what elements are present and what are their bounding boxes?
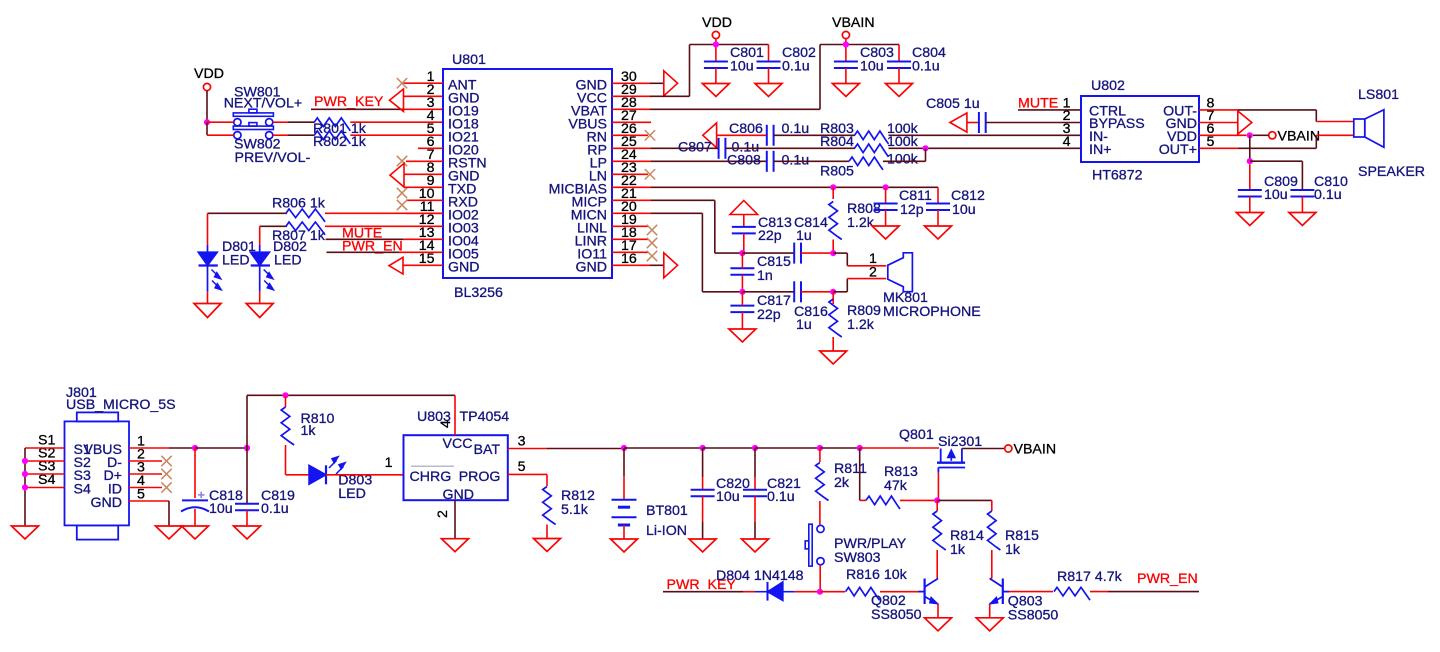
- svg-text:HT6872: HT6872: [1092, 168, 1143, 184]
- label C803: [860, 45, 894, 61]
- ground (C821): [742, 539, 769, 552]
- svg-text:1k: 1k: [950, 542, 966, 558]
- pin number 4: [427, 108, 435, 124]
- label BT801: [646, 503, 688, 519]
- label 10u (C803): [860, 59, 884, 75]
- ground (C820): [689, 539, 716, 552]
- label 22p (C817): [757, 307, 781, 323]
- label Si2301: [938, 434, 982, 450]
- junction SW803/PWR_KEY: [817, 589, 823, 595]
- pin number 1 (MK801): [869, 251, 877, 267]
- pin name OUT+ (U802 pin 5): [1159, 142, 1197, 158]
- wire VBUS pin 1: [129, 447, 169, 449]
- label 0.1u (C806): [782, 121, 810, 137]
- wire D801 net to R806: [208, 212, 288, 214]
- wire VBAIN rail: [820, 44, 899, 46]
- wire to pin 8: [404, 173, 443, 175]
- port arrow GND pin 30: [664, 71, 678, 96]
- wire to mic jog: [833, 252, 847, 254]
- pin name IO18 (pin 4): [448, 117, 479, 133]
- label C811: [899, 188, 932, 204]
- net label MUTE (U801): [342, 225, 382, 241]
- svg-text:TP4054: TP4054: [460, 409, 510, 425]
- wire: [399, 251, 443, 253]
- ground (C809): [1236, 213, 1263, 226]
- svg-text:3: 3: [518, 434, 526, 450]
- wire to D801: [207, 213, 209, 245]
- wire to MK801 pin 1: [847, 265, 886, 267]
- label U801: [452, 52, 486, 68]
- pin number 12: [419, 212, 435, 228]
- label 0.1u (C808): [782, 152, 810, 168]
- junction MICBIAS/R808: [830, 184, 836, 190]
- pin name IO20 (pin 6): [448, 143, 479, 159]
- wire C815 to junction: [741, 275, 743, 292]
- pin name IO04 (pin 13): [448, 234, 479, 250]
- svg-text:C808: C808: [727, 152, 761, 168]
- svg-text:0.1u: 0.1u: [782, 152, 810, 168]
- wire C818 to ground: [194, 509, 196, 526]
- wire VDD U802 pin 6: [1199, 134, 1247, 136]
- junction VDD/SW801: [204, 119, 210, 125]
- wire down to SW802: [206, 122, 208, 135]
- label C815: [757, 254, 791, 270]
- wire junction to C815: [741, 253, 743, 268]
- svg-text:IN+: IN+: [1089, 142, 1111, 158]
- pin name LN (pin 23): [589, 169, 607, 185]
- wire junction to C817: [741, 292, 743, 306]
- diode D804 1N4148: [755, 582, 794, 601]
- svg-text:Q801: Q801: [899, 427, 934, 443]
- pin number 2 (U803): [435, 510, 451, 518]
- net label PWR_EN (U801): [342, 239, 403, 255]
- svg-text:VBAIN: VBAIN: [832, 15, 875, 31]
- pin number 6 (U802): [1207, 121, 1215, 137]
- wire Q801 drain to VBAIN: [962, 448, 1005, 450]
- pin number 5: [427, 121, 435, 137]
- wire MICP row: [715, 252, 743, 254]
- label U803: [417, 409, 451, 425]
- no-connect ID (J801 pin 4): [129, 482, 172, 492]
- label 0.1u (C807): [732, 140, 760, 156]
- pin name MICBIAS (pin 22): [549, 182, 607, 198]
- svg-text:10u: 10u: [952, 202, 976, 218]
- label SW801: [234, 85, 281, 101]
- label 1k (R814): [950, 542, 966, 558]
- wire PWR_EN to pin 14: [327, 251, 400, 253]
- svg-text:PROG: PROG: [459, 469, 501, 485]
- transistor Q802 SS8050: [918, 579, 938, 605]
- label R804: [820, 134, 854, 150]
- label 2k (R811): [834, 475, 850, 491]
- wire D801 to ground: [207, 292, 209, 304]
- wire down to C810: [1301, 161, 1303, 190]
- wire rail to C820: [624, 447, 703, 449]
- pin name LINL (pin 19): [577, 221, 607, 237]
- label 1.2k (R808): [847, 215, 875, 231]
- label R816 10k: [846, 567, 908, 583]
- svg-text:NEXT/VOL+: NEXT/VOL+: [224, 96, 302, 112]
- svg-text:22p: 22p: [757, 307, 781, 323]
- power port VBAIN (bottom): [1005, 442, 1056, 458]
- wire R806 to pin 11: [325, 212, 443, 214]
- wire PROG pin 5: [508, 473, 547, 475]
- wire C812 to ground: [937, 210, 939, 226]
- wire PWR_KEY: [311, 108, 404, 110]
- wire C813 to junction: [743, 233, 745, 253]
- pin name VBUS (J801): [83, 442, 122, 458]
- ground (C802): [755, 84, 782, 97]
- pin name RSTN (pin 7): [448, 156, 487, 172]
- label S1 (external): [38, 433, 55, 449]
- junction S3: [22, 471, 28, 477]
- wire SW802 to R802: [273, 134, 288, 136]
- svg-text:1.2k: 1.2k: [847, 317, 875, 333]
- wire rail to R813: [820, 447, 860, 449]
- svg-text:5: 5: [137, 487, 145, 503]
- label R815: [1005, 528, 1039, 544]
- wire Q801 gate down: [937, 473, 939, 501]
- wire VDD junction to SW801: [207, 121, 234, 123]
- label U802: [1091, 78, 1125, 94]
- junction VBAIN rail: [843, 41, 849, 47]
- wire rail to R811: [755, 447, 820, 449]
- wire up to IN+ net: [925, 148, 927, 161]
- svg-text:47k: 47k: [884, 478, 908, 494]
- port arrow GND (U802 pin 7): [1238, 111, 1252, 134]
- wire MUTE to pin 13: [326, 238, 404, 240]
- junction S2: [22, 458, 28, 464]
- wire pin 24 LP: [612, 160, 651, 162]
- pin name GND (J801): [90, 495, 122, 511]
- ground (C803): [832, 84, 859, 97]
- capacitor C818 (polarized): [181, 492, 209, 512]
- wire jog down: [846, 253, 848, 266]
- wire to C818: [194, 448, 196, 498]
- label C821: [767, 476, 801, 492]
- pin number 22: [621, 173, 637, 189]
- capacitor C815: [730, 268, 754, 275]
- label 10u (C809): [1264, 187, 1288, 203]
- label BL3256: [454, 285, 503, 301]
- capacitor C805: [979, 112, 986, 133]
- capacitor C804: [887, 62, 911, 69]
- svg-text:BL3256: BL3256: [454, 285, 503, 301]
- ground (Q803): [976, 618, 1003, 631]
- op-amp U802 HT6872 body: [1081, 96, 1199, 162]
- pin number 1 (U803): [385, 455, 393, 471]
- wire D803 to U803 CHRG: [326, 474, 404, 476]
- wire to C809: [1249, 164, 1251, 190]
- pin number 10: [419, 186, 435, 202]
- pin name RXD (pin 10): [448, 195, 478, 211]
- wire RP to C807: [651, 147, 719, 149]
- wire rail junction down to R813: [859, 448, 861, 500]
- op-amp U803 TP4054 body: [404, 435, 508, 500]
- LED D802: [250, 245, 274, 292]
- wire down to R812: [546, 474, 548, 486]
- power port VDD (rail): [702, 15, 732, 39]
- label 0.1u (C804): [912, 59, 940, 75]
- label 1u (C816): [796, 317, 812, 333]
- pin name LINR (pin 18): [575, 234, 607, 250]
- wire R802 to U801 pin 5: [350, 134, 443, 136]
- wire junction to R809: [832, 292, 834, 304]
- wire C821 down: [754, 496, 756, 522]
- label R806 1k: [272, 196, 326, 212]
- wire shield bus: [24, 448, 26, 526]
- junction VBAIN/VDD (U802): [1247, 132, 1253, 138]
- capacitor C801: [704, 62, 728, 69]
- pin name CHRG (U803): [410, 466, 455, 485]
- resistor R806: [286, 209, 325, 222]
- wire S3 stub: [25, 473, 65, 475]
- ground (J801 GND): [156, 526, 183, 539]
- resistor R807: [286, 222, 325, 235]
- label PWR/PLAY: [834, 536, 907, 552]
- svg-text:1: 1: [385, 455, 393, 471]
- svg-text:16: 16: [621, 251, 637, 267]
- net label PWR_KEY (bottom): [667, 577, 737, 593]
- pin name CTRL (U802 pin 1): [1089, 104, 1126, 120]
- capacitor C813: [732, 227, 756, 234]
- no-connect pin 1: [397, 78, 443, 88]
- wire port to C806: [717, 134, 767, 136]
- pin name MICN (pin 20): [571, 208, 607, 224]
- resistor R810: [281, 407, 294, 445]
- pin number 1 (U802): [1063, 95, 1071, 111]
- label C819: [261, 488, 295, 504]
- wire U802 pin 7 to port: [1199, 122, 1238, 124]
- port arrow IN- row: [703, 123, 717, 148]
- capacitor C806: [767, 125, 774, 146]
- port arrow PWR_KEY: [390, 89, 404, 111]
- wire to pin 9: [404, 186, 443, 188]
- wire pin 16 red: [612, 264, 650, 266]
- wire MICBIAS rail: [651, 186, 938, 188]
- svg-text:USB_MICRO_5S: USB_MICRO_5S: [66, 397, 176, 413]
- ground (C818): [182, 526, 209, 539]
- wire rail to C802: [768, 45, 770, 62]
- label USB_MICRO_5S: [66, 397, 176, 413]
- wire battery to ground: [623, 525, 625, 539]
- wire BAT rail: [547, 448, 624, 450]
- svg-text:R817 4.7k: R817 4.7k: [1057, 569, 1123, 585]
- wire R814 to Q802 collector: [936, 550, 938, 579]
- label MICROPHONE: [883, 304, 981, 320]
- pin name OUT- (U802 pin 8): [1163, 104, 1197, 120]
- svg-text:VDD: VDD: [702, 15, 732, 31]
- svg-text:1u: 1u: [796, 228, 812, 244]
- port arrow RSTN/GND pins 8-9: [390, 163, 404, 187]
- wire to R808: [832, 187, 834, 199]
- wire branch to R815: [991, 500, 993, 511]
- label SPEAKER: [1358, 164, 1425, 180]
- pin name VCC (U803): [443, 436, 473, 452]
- ground (C801): [702, 84, 729, 97]
- pin name S3 (J801): [74, 468, 91, 484]
- svg-text:0.1u: 0.1u: [261, 501, 289, 517]
- wire stub pin 27 VBUS: [612, 121, 651, 123]
- port arrow GND pin 15: [389, 257, 403, 274]
- capacitor C810: [1290, 190, 1314, 197]
- resistor R805: [849, 157, 883, 170]
- pin number 15: [419, 251, 435, 267]
- wire SW803 to PWR_KEY net: [819, 565, 821, 592]
- wire VBAT right: [650, 108, 820, 110]
- wire MICN down: [701, 213, 703, 291]
- pin name GND (pin 15): [448, 260, 480, 276]
- pin name IO03 (pin 12): [448, 221, 479, 237]
- capacitor C814: [794, 243, 801, 264]
- label TP4054: [460, 409, 510, 425]
- resistor R815: [988, 511, 1001, 550]
- svg-text:LED: LED: [222, 253, 250, 269]
- no-connect pin 23: [612, 169, 655, 179]
- svg-text:0.1u: 0.1u: [1314, 187, 1342, 203]
- pin name VCC (pin 29): [577, 91, 607, 107]
- LED D801: [198, 245, 222, 292]
- junction C815/C817: [739, 289, 745, 295]
- label S2 (external): [38, 446, 55, 462]
- label C802: [782, 45, 816, 61]
- label 22p (C813): [758, 228, 782, 244]
- wire pin 30 to port: [650, 82, 664, 84]
- wire MICP right: [651, 199, 715, 201]
- svg-text:1u: 1u: [796, 317, 812, 333]
- label C813: [758, 215, 792, 231]
- wire LP to C808: [651, 160, 767, 162]
- pin number 2 (J801): [137, 447, 145, 463]
- ground (D802): [246, 304, 273, 318]
- label LED (D801): [222, 253, 250, 269]
- svg-text:0.1u: 0.1u: [767, 489, 795, 505]
- pin number 23: [621, 160, 637, 176]
- label 10u (C820): [716, 489, 740, 505]
- label Q803: [1008, 594, 1043, 610]
- label 5.1k (R812): [561, 502, 589, 518]
- wire BAT pin 3: [508, 448, 547, 450]
- capacitor C802: [757, 62, 781, 69]
- wire pin 25 RP: [612, 147, 651, 149]
- svg-text:10u: 10u: [730, 59, 754, 75]
- label R813: [884, 464, 918, 480]
- wire R812 to ground: [546, 525, 548, 539]
- wire D804 to junction: [794, 591, 820, 593]
- svg-text:SW803: SW803: [834, 550, 881, 566]
- pin number 18: [621, 225, 637, 241]
- svg-text:10u: 10u: [716, 489, 740, 505]
- wire GND pin 5: [129, 500, 169, 502]
- label R808: [847, 201, 881, 217]
- svg-text:D804 1N4148: D804 1N4148: [716, 568, 804, 584]
- label HT6872: [1092, 168, 1143, 184]
- label C809: [1264, 174, 1298, 190]
- wire rail to C804: [898, 45, 900, 62]
- pin number 3 (U802): [1063, 121, 1071, 137]
- svg-text:2: 2: [435, 510, 451, 518]
- ground (BT801): [611, 539, 638, 552]
- wire VCC pin 29: [612, 95, 650, 97]
- wire node to R815 branch: [937, 499, 992, 501]
- wire SW801 to R801: [273, 121, 288, 123]
- wire pin 30 red: [612, 82, 650, 84]
- wire port to C805: [967, 122, 979, 124]
- svg-text:GND: GND: [575, 260, 607, 276]
- wire S2 stub: [25, 460, 65, 462]
- wire rail to Q801: [860, 447, 939, 449]
- svg-text:0.1u: 0.1u: [782, 59, 810, 75]
- label C812: [951, 188, 985, 204]
- wire R817 right: [1090, 591, 1108, 593]
- ground (D801): [194, 304, 221, 318]
- wire node to R814: [936, 500, 938, 511]
- ground (C811): [872, 226, 899, 239]
- junction C816/R809/MK801: [830, 289, 836, 295]
- label R814: [950, 528, 984, 544]
- wire to C816: [742, 291, 794, 293]
- label J801: [66, 385, 97, 401]
- wire R815 down: [991, 550, 993, 579]
- label D802: [273, 239, 307, 255]
- wire C804 to ground: [898, 68, 900, 84]
- junction S4: [22, 484, 28, 490]
- wire to MK801 pin 2: [847, 278, 886, 280]
- wire to C820 plate: [702, 477, 704, 490]
- ground (U803 GND): [442, 539, 469, 552]
- label SW803: [834, 550, 881, 566]
- svg-text:S4: S4: [74, 482, 91, 498]
- wire C811 to ground: [885, 210, 887, 226]
- svg-text:BT801: BT801: [646, 503, 688, 519]
- wire: [288, 134, 315, 136]
- svg-text:10u: 10u: [860, 59, 884, 75]
- label LS801: [1358, 87, 1399, 103]
- wire C819 to ground: [246, 510, 248, 526]
- pin name GND (pin 16): [575, 260, 607, 276]
- pin number 11: [420, 199, 435, 215]
- pin number 1: [427, 69, 435, 85]
- wire OUT+ to speaker: [1316, 134, 1354, 136]
- resistor R803: [855, 131, 889, 144]
- wire MICN row: [702, 291, 742, 293]
- svg-text:5: 5: [1207, 134, 1215, 150]
- ground (C804): [886, 84, 913, 97]
- wire junction to VBAIN port: [1253, 134, 1269, 136]
- label MK801: [883, 290, 928, 306]
- wire R805 right: [883, 160, 926, 162]
- power port VBAIN (speaker): [1269, 128, 1320, 144]
- svg-text:12p: 12p: [900, 202, 924, 218]
- wire up to VDD rail: [689, 45, 691, 97]
- pin number 3 (J801): [137, 460, 145, 476]
- no-connect pin 11: [397, 200, 443, 214]
- junction C820: [700, 445, 706, 451]
- pin number 27: [621, 108, 637, 124]
- no-connect D+ (J801 pin 3): [129, 469, 172, 479]
- svg-text:BAT: BAT: [474, 442, 501, 458]
- pin name S4 (J801): [74, 482, 91, 498]
- label Q801: [899, 427, 934, 443]
- pin name RP (pin 25): [587, 143, 607, 159]
- wire: [404, 238, 443, 240]
- label 1u (C814): [796, 228, 812, 244]
- label SW802: [234, 137, 281, 153]
- wire C806 to R803: [774, 134, 855, 136]
- wire C820 down: [702, 496, 704, 522]
- label D803: [338, 473, 372, 489]
- wire to R816: [820, 591, 845, 593]
